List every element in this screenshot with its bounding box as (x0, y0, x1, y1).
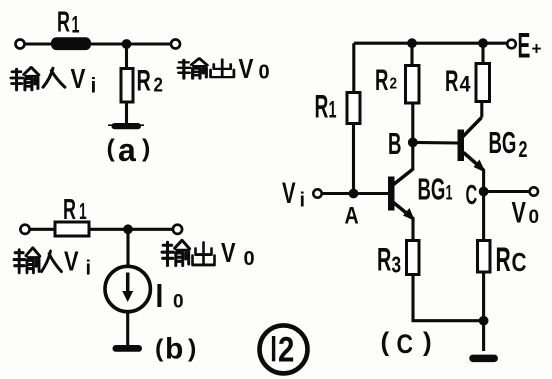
wire node B to BG2 base (413, 141, 458, 145)
svg-text:3: 3 (392, 253, 402, 278)
svg-text:R: R (63, 194, 76, 226)
terminal output (a) (171, 40, 180, 49)
node junction (a) (122, 39, 132, 49)
wire BG2 emitter to node C (482, 169, 485, 192)
resistor Rc (478, 241, 491, 273)
label 输入 Vi (a) (11, 68, 39, 90)
terminal V0 (530, 187, 538, 195)
svg-text:i: i (300, 190, 306, 212)
svg-text:2: 2 (154, 73, 163, 96)
svg-text:R: R (315, 88, 329, 124)
svg-text:0: 0 (173, 292, 184, 313)
svg-text:R: R (377, 242, 391, 278)
svg-text:R: R (445, 65, 458, 99)
label V0 (512, 195, 527, 229)
svg-text:1: 1 (79, 200, 87, 225)
transistor BG1 (388, 177, 395, 211)
svg-text:(: ( (107, 135, 116, 163)
wire R2 to node B to BG1 collector (411, 103, 414, 171)
svg-text:b: b (165, 333, 183, 366)
svg-text:1: 1 (446, 180, 453, 204)
label I0 (156, 278, 164, 315)
label BG1 (418, 173, 446, 207)
svg-text:1: 1 (72, 12, 80, 39)
wire R1 to output (b) (89, 228, 173, 231)
wire top rail E+ (354, 42, 507, 45)
svg-text:2: 2 (519, 137, 528, 162)
transistor BG2 (458, 130, 465, 162)
wire junction to current source (126, 229, 129, 266)
label 输入 Vi (b) (14, 248, 40, 273)
resistor R1 (b) (55, 222, 89, 236)
resistor R2 (a) (121, 69, 133, 103)
ground (b) (113, 345, 143, 352)
svg-text:R: R (496, 240, 511, 278)
wire rail to R2 (410, 43, 413, 65)
svg-text:V: V (64, 246, 79, 277)
figure number 12 circled (260, 325, 308, 373)
svg-text:C: C (397, 329, 414, 359)
wire source to ground (b) (126, 312, 129, 346)
ground (a) (112, 123, 142, 129)
svg-text:0: 0 (529, 207, 540, 228)
terminal output (b) (173, 225, 182, 234)
svg-text:i: i (86, 258, 92, 280)
wire R2 to ground (a) (125, 102, 128, 124)
wire junction down to R2 (125, 44, 128, 69)
label Rc (496, 240, 511, 278)
label R1 (b) (63, 194, 76, 226)
svg-text:R: R (137, 65, 151, 98)
svg-text:2: 2 (390, 76, 398, 93)
svg-text:(: ( (155, 335, 164, 363)
node A (349, 189, 359, 199)
label R3 (377, 242, 391, 278)
label R2 (c) (375, 64, 388, 98)
svg-text:0: 0 (259, 62, 270, 84)
label A (345, 202, 359, 229)
bottom junction node (479, 316, 489, 326)
svg-text:(: ( (381, 327, 390, 357)
wire BG1 emitter to R3 (411, 217, 414, 241)
label R1 (c) (315, 88, 329, 124)
wire R1 to node A (352, 124, 355, 194)
ground (c) (469, 355, 498, 363)
svg-text:): ) (423, 327, 432, 357)
wire Rc to ground (482, 272, 485, 351)
node top R2 (407, 38, 417, 48)
svg-text:C: C (512, 248, 527, 277)
svg-text:V: V (512, 195, 527, 229)
resistor R4 (476, 64, 490, 102)
svg-text:1: 1 (329, 97, 337, 124)
label 输出 V0 (b) (162, 241, 190, 266)
svg-text:2: 2 (278, 330, 294, 369)
svg-text:): ) (188, 335, 196, 363)
terminal Vi (c) (313, 189, 321, 197)
resistor R1 (a) solid (51, 37, 91, 50)
resistor R2 (c) (406, 66, 420, 104)
svg-text:I: I (156, 278, 164, 315)
wire input to R1 (a) (25, 42, 53, 45)
wire rail to R4 (481, 43, 484, 63)
current source I0 (105, 266, 150, 311)
svg-text:0: 0 (244, 248, 255, 270)
node C (479, 187, 489, 197)
node top R4 (478, 38, 488, 48)
wire Vi to BG1 base (322, 192, 389, 195)
svg-text:V: V (71, 64, 86, 95)
node junction (b) (123, 224, 133, 234)
svg-text:B: B (388, 127, 401, 161)
node B (408, 138, 418, 148)
svg-text:i: i (91, 75, 97, 98)
label R1 (a) (57, 6, 70, 38)
label C (466, 178, 478, 210)
svg-text:C: C (466, 178, 478, 210)
terminal input (b) (20, 225, 29, 234)
label R4 (445, 65, 458, 99)
wire node C to Rc (482, 192, 485, 241)
svg-text:R: R (57, 6, 70, 38)
label E+ (518, 25, 531, 65)
label 输出 V0 (a) (178, 59, 207, 79)
svg-text:4: 4 (460, 73, 471, 97)
terminal E+ (507, 40, 516, 49)
svg-text:a: a (118, 132, 136, 168)
label BG2 (489, 126, 517, 160)
svg-text:V: V (221, 237, 236, 268)
label B (388, 127, 401, 161)
svg-text:E: E (518, 25, 531, 65)
resistor R3 (407, 241, 420, 275)
svg-text:+: + (532, 38, 542, 59)
resistor R1 (c) (347, 93, 360, 124)
wire node C to V0 (484, 190, 530, 193)
label R2 (a) (137, 65, 151, 98)
svg-text:): ) (142, 135, 150, 163)
svg-text:A: A (345, 202, 359, 229)
wire R1 to output (a) (91, 42, 171, 45)
terminal input (a) (16, 40, 25, 49)
wire R4 to BG2 collector (480, 102, 483, 118)
svg-text:V: V (282, 177, 296, 210)
svg-text:R: R (375, 64, 388, 98)
label Vi (c) (282, 177, 296, 210)
svg-text:BG: BG (489, 126, 517, 160)
svg-text:BG: BG (418, 173, 446, 207)
wire R3 down and right to bottom junction (413, 275, 484, 321)
svg-text:V: V (239, 54, 254, 85)
wire input to R1 (b) (30, 228, 56, 231)
wire rail down to R1 (c) (352, 43, 355, 92)
